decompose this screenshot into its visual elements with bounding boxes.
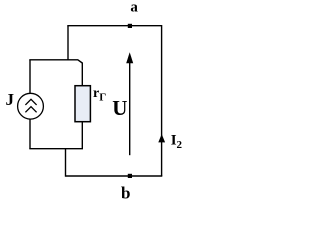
current arrow I2 head [158,134,165,142]
wire bottom horizontal [66,175,163,177]
wire resistor bottom [81,122,83,149]
voltage arrow U shaft [129,61,131,155]
svg-text:U: U [112,96,127,120]
svg-text:a: a [130,0,138,15]
svg-text:J: J [6,90,15,109]
current source J circle [18,93,44,119]
wire inner top rail with jog [29,60,82,63]
wire top horizontal [67,25,161,27]
wire left vertical to source [29,60,31,94]
wire resistor top [81,63,83,86]
voltage arrow U head [126,52,133,63]
wire bottom feed vertical [65,149,67,177]
wire inner bottom rail [29,148,83,150]
resistor rG body [75,86,90,122]
current source J chevron bottom [25,107,36,113]
node b junction dot [128,174,132,178]
current source J chevron top [25,99,36,105]
svg-text:b: b [121,184,130,203]
wire right vertical [161,25,163,176]
node a junction dot [128,24,132,28]
wire top feed vertical [67,26,69,61]
wire source bottom [29,119,31,149]
